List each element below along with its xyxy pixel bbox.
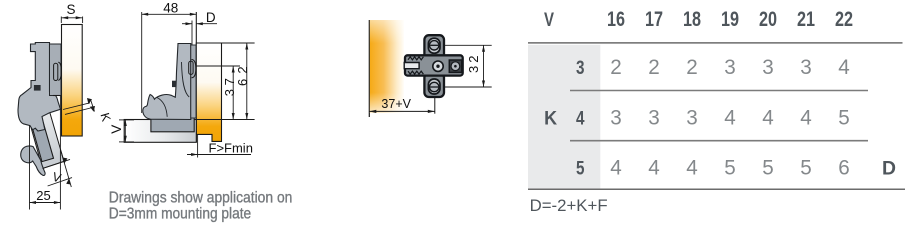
- cam square + circle: [449, 60, 461, 72]
- screw head arc: [58, 62, 61, 80]
- svg-text:22: 22: [835, 8, 853, 31]
- svg-text:D=3mm mounting plate: D=3mm mounting plate: [109, 206, 251, 223]
- 25 dimension line: [30, 202, 61, 204]
- mounting plate cruciform body: [405, 35, 463, 97]
- svg-text:4: 4: [648, 155, 660, 179]
- svg-text:17: 17: [645, 8, 663, 31]
- svg-text:25: 25: [36, 188, 50, 203]
- svg-text:3: 3: [762, 55, 774, 79]
- svg-text:5: 5: [576, 157, 585, 179]
- data row K=5: [610, 155, 850, 179]
- svg-text:18: 18: [683, 8, 701, 31]
- svg-text:4: 4: [838, 55, 850, 79]
- door gap top edge line: [53, 95, 60, 97]
- svg-text:2: 2: [686, 55, 698, 79]
- cup wing horn on door face: [21, 146, 45, 175]
- svg-text:V: V: [51, 170, 64, 186]
- svg-text:3: 3: [610, 105, 622, 129]
- bottom line: [528, 188, 905, 190]
- screw bottom: [430, 82, 439, 91]
- screw top: [430, 41, 439, 50]
- panel face vertical line: [195, 12, 197, 142]
- svg-text:5: 5: [724, 155, 736, 179]
- svg-text:62: 62: [235, 66, 250, 86]
- row labels 3 4 5: [576, 57, 585, 179]
- svg-text:Drawings show application on: Drawings show application on: [109, 189, 293, 206]
- door face extension (steep): [61, 152, 71, 188]
- svg-text:D: D: [206, 10, 216, 25]
- joint notch (dark tab): [34, 85, 41, 91]
- svg-text:3: 3: [724, 55, 736, 79]
- svg-text:37+V: 37+V: [381, 97, 411, 111]
- F>Fmin dimension: [197, 135, 199, 158]
- svg-text:3: 3: [800, 55, 812, 79]
- svg-text:4: 4: [724, 105, 736, 129]
- 25 dimension extension lines: [29, 125, 31, 210]
- svg-text:4: 4: [686, 155, 698, 179]
- K dimension extension lines across panel: [63, 103, 90, 110]
- screw head arc: [192, 60, 196, 78]
- svg-text:19: 19: [721, 8, 739, 31]
- top wing: [424, 35, 444, 59]
- panel orange gradient block: [370, 20, 404, 113]
- svg-text:6: 6: [838, 155, 850, 179]
- V dimension (door bar thickness): [124, 120, 126, 143]
- row separator line 2: [570, 140, 868, 142]
- cup bore in door bar: [151, 116, 194, 132]
- svg-text:3: 3: [648, 105, 660, 129]
- center bar: [405, 55, 463, 75]
- header separator line: [528, 42, 903, 44]
- svg-text:V: V: [544, 9, 554, 31]
- svg-text:20: 20: [759, 8, 777, 31]
- bottom wing: [424, 73, 444, 97]
- center ring: [433, 61, 443, 71]
- D dimension: extension line: [191, 21, 193, 48]
- row separator line 1: [570, 90, 868, 92]
- header numbers: [607, 8, 853, 31]
- svg-text:2: 2: [610, 55, 622, 79]
- svg-text:D=-2+K+F: D=-2+K+F: [530, 196, 608, 215]
- svg-text:4: 4: [576, 107, 585, 129]
- arm inner fold line: [182, 62, 190, 97]
- svg-text:3: 3: [686, 105, 698, 129]
- row header shading block: [528, 45, 600, 189]
- 62 dimension line: [246, 43, 248, 120]
- data row K=4: [610, 105, 850, 129]
- svg-text:48: 48: [163, 1, 178, 16]
- svg-text:F>Fmin: F>Fmin: [209, 141, 253, 156]
- 48 dimension extension line (left): [141, 12, 143, 113]
- svg-text:5: 5: [800, 155, 812, 179]
- slot opening left: [404, 63, 419, 69]
- svg-text:D: D: [882, 157, 896, 179]
- panel (cabinet side, gradient): [196, 43, 221, 141]
- svg-text:3: 3: [576, 57, 585, 79]
- 62/37 extension lines: [222, 42, 255, 44]
- panel edge line: [368, 20, 370, 117]
- svg-text:5: 5: [838, 105, 850, 129]
- wing slots: [428, 38, 440, 53]
- svg-text:K: K: [544, 107, 557, 129]
- screw slot pill: [189, 61, 193, 74]
- svg-text:V: V: [109, 125, 124, 134]
- D dimension arrows (outside): [182, 23, 192, 25]
- screw slot pill: [54, 63, 58, 80]
- svg-text:K: K: [97, 111, 113, 124]
- svg-text:16: 16: [607, 8, 625, 31]
- cup bore in door: [29, 111, 54, 161]
- 37 dimension line: [232, 66, 234, 120]
- serration teeth on left arm edges: [408, 57, 423, 60]
- interface / mounting strip of arm: [50, 44, 62, 96]
- dimension S line with arrows: [62, 17, 82, 19]
- cup top curve interior line: [157, 98, 167, 117]
- svg-text:32: 32: [466, 56, 481, 74]
- hinge arm vertical slab + top tab: [18, 43, 61, 132]
- interface / plate strip: [191, 45, 196, 118]
- 32 dimension line: [483, 45, 485, 87]
- svg-text:2: 2: [648, 55, 660, 79]
- V dimension at door end: [43, 159, 71, 168]
- data row K=3: [610, 55, 850, 79]
- dimension S extension ticks: [60, 17, 62, 24]
- door slab (open, tilted 16deg): [27, 107, 64, 169]
- joint notch: [172, 81, 176, 87]
- svg-text:4: 4: [762, 105, 774, 129]
- door bar (horizontal): [124, 120, 196, 143]
- panel (cabinet side, gradient): [62, 25, 83, 137]
- 32 dimension leader lines: [440, 44, 492, 46]
- svg-text:5: 5: [762, 155, 774, 179]
- svg-text:S: S: [66, 2, 75, 17]
- svg-text:21: 21: [797, 8, 815, 31]
- svg-text:4: 4: [800, 105, 812, 129]
- 37+V dimension: [434, 98, 436, 114]
- svg-text:4: 4: [610, 155, 622, 179]
- K arrow stem: [91, 100, 95, 112]
- hinge arm + cup body: [143, 44, 191, 120]
- 48 dimension line: [142, 13, 197, 15]
